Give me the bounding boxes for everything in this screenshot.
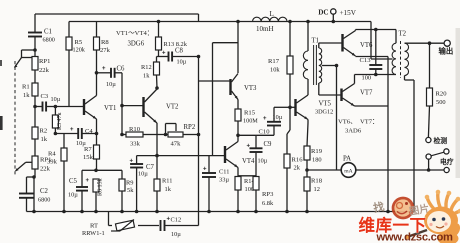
svg-text:6800: 6800 bbox=[43, 37, 55, 44]
svg-text:VT2: VT2 bbox=[166, 104, 179, 111]
wire T1 secondary bottom to VT7 base bbox=[319, 94, 341, 96]
resistor R7 15k bbox=[96, 134, 98, 146]
svg-text:R9: R9 bbox=[126, 180, 133, 187]
svg-text:+: + bbox=[102, 66, 106, 72]
wire VT4 emitter to R14 RP3 bbox=[237, 168, 239, 177]
svg-text:180: 180 bbox=[312, 157, 322, 164]
svg-text:R18: R18 bbox=[311, 178, 323, 185]
node VT3 collector bus junction bbox=[236, 20, 240, 24]
svg-text:RP3: RP3 bbox=[262, 191, 274, 198]
capacitor C9 10u bbox=[255, 135, 257, 148]
svg-text:C11: C11 bbox=[219, 169, 229, 176]
svg-text:RT: RT bbox=[90, 223, 98, 230]
svg-text:mA: mA bbox=[344, 168, 352, 174]
wire emitter rail to ground bbox=[387, 57, 389, 212]
svg-text:33µ: 33µ bbox=[219, 177, 229, 184]
capacitor C12 10u bbox=[160, 220, 162, 231]
svg-text:10µ: 10µ bbox=[171, 231, 181, 238]
svg-text:C6: C6 bbox=[117, 66, 126, 73]
wire top bus from C1 to step-down bbox=[35, 13, 199, 15]
svg-text:R4: R4 bbox=[48, 151, 56, 158]
node C13 top junction bbox=[374, 28, 378, 32]
svg-text:22k: 22k bbox=[40, 166, 51, 173]
node C3 right junction bbox=[54, 105, 58, 109]
svg-text:输出: 输出 bbox=[439, 47, 454, 56]
node T1 primary bus junction bbox=[306, 20, 310, 24]
svg-text:3DG12: 3DG12 bbox=[315, 109, 333, 116]
svg-text:R3 47k: R3 47k bbox=[57, 112, 63, 130]
svg-text:+: + bbox=[70, 127, 74, 133]
resistor R4 39k bbox=[63, 134, 65, 149]
node R17 top bus junction bbox=[288, 20, 292, 24]
node RP2 right junction bbox=[197, 133, 201, 137]
node C8 right junction bbox=[197, 55, 201, 59]
transformer T1 primary winding bbox=[307, 22, 309, 52]
scan shadow right edge bbox=[456, 28, 460, 178]
svg-text:10µ: 10µ bbox=[273, 114, 283, 121]
node R8 C6 junction bbox=[95, 71, 99, 75]
wire T1 secondary top to VT6 base bbox=[319, 42, 342, 44]
wire +V bus drop to T2 center tap bbox=[370, 22, 372, 60]
svg-text:+15V: +15V bbox=[340, 9, 357, 17]
transformer T1 secondary winding bbox=[318, 43, 320, 48]
node VT2 base junction bbox=[120, 104, 124, 108]
wire VT7 emitter bbox=[355, 105, 389, 107]
node VT1 base rail left junction bbox=[33, 105, 37, 109]
resistor R1 1k bbox=[34, 70, 36, 83]
svg-text:10µ: 10µ bbox=[258, 158, 268, 165]
svg-text:15k: 15k bbox=[83, 154, 94, 161]
wire VT1 base rail bbox=[55, 106, 84, 108]
svg-text:RP1: RP1 bbox=[39, 58, 50, 65]
resistor R12 1k bbox=[156, 57, 158, 63]
resistor R3 47k bbox=[54, 107, 56, 116]
node emitter C7 junction bbox=[155, 154, 159, 158]
svg-text:3AD6: 3AD6 bbox=[345, 128, 362, 135]
svg-text:RRW1-1: RRW1-1 bbox=[82, 230, 105, 237]
node RP1 lower bottom junction bbox=[34, 169, 36, 177]
svg-text:VT6: VT6 bbox=[360, 42, 373, 49]
resistor R5 120k bbox=[68, 22, 70, 38]
terminal jiance detect bbox=[426, 137, 431, 142]
svg-text:100: 100 bbox=[362, 75, 372, 82]
node output R20 junction bbox=[428, 41, 432, 45]
wire VT2 base bbox=[122, 105, 143, 107]
resistor R13 8.2k bbox=[157, 20, 161, 24]
svg-text:R10: R10 bbox=[129, 126, 141, 133]
node R15 bottom junction bbox=[236, 134, 240, 138]
svg-text:27k: 27k bbox=[100, 47, 111, 54]
svg-text:10k: 10k bbox=[270, 67, 280, 74]
svg-text:R1: R1 bbox=[22, 84, 30, 91]
potentiometer RP2 47k bbox=[164, 133, 168, 137]
terminal common bbox=[444, 167, 449, 172]
node VT5 base junction bbox=[288, 106, 292, 110]
resistor R17 10k bbox=[289, 22, 291, 57]
capacitor C2 6800 bbox=[27, 176, 35, 178]
svg-text:+: + bbox=[263, 116, 267, 122]
resistor R20 500 bbox=[429, 43, 431, 88]
resistor R18 12 bbox=[306, 170, 308, 177]
thermistor RT RRW1-1 bbox=[115, 220, 134, 231]
transistor VT2 bbox=[142, 97, 144, 117]
svg-text:1k: 1k bbox=[41, 136, 48, 143]
svg-text:10µ: 10µ bbox=[51, 96, 61, 103]
resistor R2 1k bbox=[34, 107, 36, 128]
svg-text:10µ: 10µ bbox=[106, 81, 116, 88]
svg-text:47k: 47k bbox=[171, 141, 182, 148]
wire C6 to VT2 base column bbox=[121, 73, 123, 106]
svg-text:33k: 33k bbox=[130, 141, 141, 148]
svg-text:120k: 120k bbox=[73, 47, 86, 54]
svg-text:100M: 100M bbox=[243, 118, 258, 125]
svg-text:+: + bbox=[203, 167, 207, 173]
wire +V bus y21.5 bbox=[69, 21, 371, 23]
wire lower feedback loop bbox=[108, 212, 110, 226]
output terminal bbox=[444, 40, 450, 46]
capacitor C6 10u bbox=[97, 72, 112, 74]
switch arm dianliao bbox=[426, 154, 431, 159]
svg-text:10µ: 10µ bbox=[68, 192, 78, 199]
transformer T2 core dashed bbox=[400, 41, 402, 78]
svg-text:R19: R19 bbox=[311, 148, 323, 155]
capacitor C3 10u bbox=[35, 106, 43, 108]
capacitor C10 10u bbox=[238, 134, 274, 136]
svg-text:VT4: VT4 bbox=[242, 158, 255, 165]
svg-text:VT5: VT5 bbox=[319, 101, 332, 108]
capacitor C13 100 bbox=[375, 30, 377, 66]
DC +15V supply terminal bbox=[331, 9, 336, 14]
svg-text:R6 15k: R6 15k bbox=[98, 178, 104, 196]
wire feedback column from C8 bbox=[198, 57, 200, 226]
svg-text:R20: R20 bbox=[436, 91, 448, 98]
wire VT5 base bbox=[290, 106, 296, 108]
transistor VT1 bbox=[83, 99, 85, 115]
wire meter left bbox=[307, 169, 341, 171]
svg-text:L: L bbox=[270, 10, 274, 18]
svg-text:VT3: VT3 bbox=[244, 85, 257, 92]
wire T2 secondary top to output bbox=[405, 42, 445, 44]
resistor R16 2k bbox=[289, 107, 291, 130]
wire C5 R6 node rail bbox=[82, 169, 96, 171]
transformer T1 core bbox=[313, 45, 315, 85]
wire T1 secondary center tap bbox=[322, 65, 337, 67]
potentiometer RP3 6.8k bbox=[255, 175, 257, 178]
svg-text:C5: C5 bbox=[69, 178, 78, 185]
transformer T2 secondary winding bbox=[405, 43, 409, 75]
wire switch to common rail bbox=[428, 159, 430, 170]
svg-text:VT1: VT1 bbox=[104, 105, 116, 112]
svg-text:PA: PA bbox=[343, 156, 351, 163]
wire VT6 emitter bbox=[356, 56, 389, 58]
wire VT6 collector rail bbox=[355, 30, 357, 31]
capacitor C11 33u bbox=[208, 156, 210, 173]
svg-text:R15: R15 bbox=[244, 110, 256, 117]
svg-text:22k: 22k bbox=[39, 67, 50, 74]
wire meter right to output terminals bbox=[356, 169, 444, 171]
node C13 bottom junction bbox=[374, 73, 378, 77]
svg-text:R5: R5 bbox=[75, 39, 83, 46]
svg-text:C9: C9 bbox=[264, 141, 273, 148]
svg-text:500: 500 bbox=[436, 99, 446, 106]
svg-text:12: 12 bbox=[314, 186, 320, 193]
svg-text:+: + bbox=[162, 51, 166, 57]
potentiometer RP1 22k lower section bbox=[34, 139, 36, 156]
svg-text:10µ: 10µ bbox=[138, 171, 148, 178]
capacitor C7 10u bbox=[137, 155, 157, 157]
wire VT3 base bbox=[199, 80, 231, 82]
resistor R15 100M bbox=[237, 100, 239, 110]
svg-text:C3: C3 bbox=[41, 93, 49, 100]
resistor R8 27k bbox=[96, 22, 98, 38]
svg-text:5k: 5k bbox=[127, 187, 134, 194]
svg-text:R7: R7 bbox=[84, 146, 92, 153]
svg-text:10µ: 10µ bbox=[177, 59, 187, 66]
wire VT7 collector rail bbox=[354, 75, 356, 84]
node R3 bottom junction bbox=[54, 132, 58, 136]
resistor R19 180 bbox=[307, 120, 309, 124]
svg-text:R8: R8 bbox=[101, 39, 109, 46]
watermark mascot bbox=[405, 190, 460, 243]
dashed gang line of RP1 bbox=[14, 61, 16, 176]
transistor VT7 bbox=[340, 89, 342, 102]
node R7 bottom junction bbox=[94, 169, 98, 173]
transformer T2 primary winding bbox=[392, 43, 396, 74]
wire VT4 base rail bbox=[157, 155, 224, 157]
node VT1 emitter junction bbox=[95, 132, 99, 136]
svg-text:3DG6: 3DG6 bbox=[128, 41, 145, 48]
svg-text:DC: DC bbox=[318, 9, 328, 17]
svg-text:C8: C8 bbox=[175, 48, 184, 55]
node C1 bottom junction bbox=[33, 48, 37, 52]
svg-text:T1: T1 bbox=[312, 38, 320, 45]
svg-text:1k: 1k bbox=[143, 73, 150, 80]
node R19 R18 junction bbox=[305, 168, 309, 172]
transistor VT3 bbox=[237, 22, 239, 74]
svg-text:C10: C10 bbox=[259, 129, 271, 136]
svg-text:VT7: VT7 bbox=[360, 90, 373, 97]
svg-text:C13: C13 bbox=[360, 57, 372, 64]
svg-text:RP2: RP2 bbox=[184, 124, 196, 131]
svg-text:R16: R16 bbox=[292, 157, 304, 164]
potentiometer RP1 22k upper section bbox=[32, 57, 38, 71]
capacitor C8 10u bbox=[157, 56, 169, 58]
svg-text:检测: 检测 bbox=[434, 136, 448, 145]
svg-text:39k: 39k bbox=[47, 159, 58, 166]
svg-text:6800: 6800 bbox=[38, 197, 50, 204]
inductor L 10mH bbox=[253, 17, 288, 21]
svg-text:R12: R12 bbox=[141, 64, 152, 71]
svg-text:R11: R11 bbox=[162, 178, 172, 185]
svg-text:www.dzsc.com: www.dzsc.com bbox=[376, 232, 454, 243]
capacitor C5 10u bbox=[81, 170, 83, 187]
resistor R10 33k bbox=[122, 134, 126, 136]
scan mark left edge bbox=[0, 116, 3, 130]
svg-text:C1: C1 bbox=[44, 29, 52, 36]
resistor R6 15k bbox=[93, 179, 99, 192]
svg-text:+: + bbox=[247, 144, 251, 150]
resistor R9 5k bbox=[121, 170, 123, 179]
svg-text:T2: T2 bbox=[399, 31, 407, 38]
svg-text:VT1～VT4：: VT1～VT4： bbox=[116, 30, 153, 37]
svg-text:+: + bbox=[130, 159, 134, 165]
wire VT2 emitter column bbox=[156, 123, 158, 156]
transistor VT4 bbox=[224, 146, 226, 163]
transistor VT5 bbox=[294, 99, 296, 116]
svg-text:C2: C2 bbox=[40, 188, 49, 195]
svg-text:R2: R2 bbox=[40, 128, 48, 135]
transistor VT6 bbox=[341, 34, 343, 52]
wire VT3 base loop bbox=[213, 42, 239, 44]
watermark zhao IC tupian logo bbox=[372, 198, 430, 218]
svg-text:R17: R17 bbox=[268, 58, 280, 65]
svg-text:电疗: 电疗 bbox=[440, 157, 454, 166]
node VT2 collector junction bbox=[155, 86, 159, 90]
svg-text:+: + bbox=[86, 178, 90, 184]
capacitor C1 6800 bbox=[34, 14, 36, 33]
resistor R14 100 bbox=[235, 177, 241, 191]
svg-text:VT6、 VT7：: VT6、 VT7： bbox=[338, 119, 379, 126]
capacitor C4 10u bbox=[55, 133, 78, 135]
svg-text:1k: 1k bbox=[165, 186, 172, 193]
resistor R11 1k bbox=[156, 156, 158, 179]
svg-text:6.8k: 6.8k bbox=[262, 200, 274, 207]
ground bus bbox=[27, 211, 415, 213]
svg-text:2k: 2k bbox=[294, 165, 301, 172]
svg-text:10mH: 10mH bbox=[256, 25, 274, 33]
svg-text:1k: 1k bbox=[23, 92, 30, 99]
svg-text:C12: C12 bbox=[171, 217, 182, 224]
ammeter PA mA bbox=[341, 163, 356, 178]
svg-text:C4: C4 bbox=[85, 128, 93, 135]
wire T2 secondary bottom bbox=[404, 76, 406, 81]
